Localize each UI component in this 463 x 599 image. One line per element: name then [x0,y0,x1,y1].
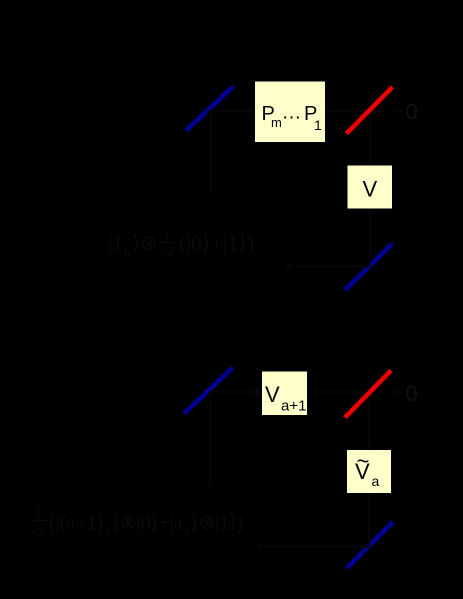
svg-text:0: 0 [406,381,418,406]
svg-text:a: a [372,473,380,489]
svg-text:1: 1 [163,228,170,243]
svg-text:|1: |1 [108,231,123,255]
svg-text:…: … [282,102,302,124]
svg-text:0: 0 [406,99,418,124]
svg-text:⟩⊗|1⟩): ⟩⊗|1⟩) [191,512,244,534]
svg-text:√2: √2 [30,525,45,540]
svg-text:k: k [124,245,131,260]
svg-text:(|0⟩+|1⟩): (|0⟩+|1⟩) [179,231,255,255]
svg-text:⟩⊗|0⟩+|a: ⟩⊗|0⟩+|a [112,512,183,534]
svg-text:√2: √2 [159,245,174,260]
svg-text:⟩⊗: ⟩⊗ [132,231,158,255]
svg-text:1: 1 [34,506,41,521]
svg-text:(|(a+1): (|(a+1) [49,512,103,534]
svg-text:~: ~ [357,449,370,474]
svg-text:m: m [271,115,282,130]
svg-text:a+1: a+1 [281,398,306,415]
svg-text:1: 1 [314,117,322,133]
svg-text:V: V [363,177,378,202]
svg-text:V: V [265,382,280,407]
